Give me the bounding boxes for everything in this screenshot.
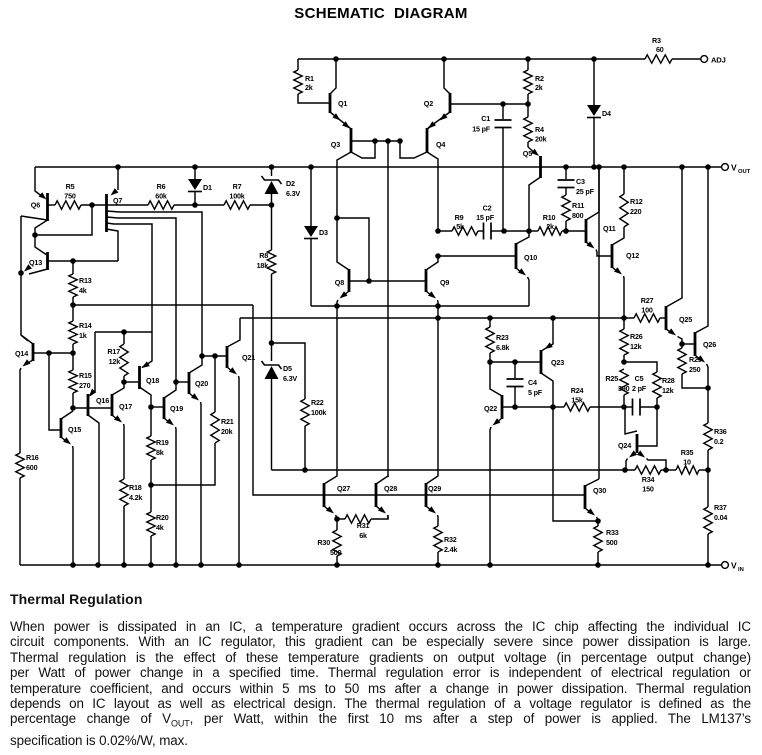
svg-text:R22: R22 [311,398,324,407]
node dot VOUT rail at D2 [269,164,275,170]
svg-text:5 pF: 5 pF [528,388,543,397]
wire bias column x253 down [253,305,324,495]
node dot C4 bottom [512,404,518,410]
transistor Q11 [586,167,616,256]
svg-text:Q26: Q26 [703,340,716,349]
svg-text:4k: 4k [156,523,164,532]
node dot R9 left node [435,228,441,234]
svg-text:Q6: Q6 [31,201,40,210]
svg-text:750: 750 [64,192,76,201]
wire R9 node [438,230,452,232]
svg-text:Q11: Q11 [603,224,616,233]
wire R6 to D1 [174,204,195,206]
node dot C1 bottom node [501,228,507,234]
transistor Q24 [618,407,666,470]
resistor R4 [524,104,547,147]
svg-text:600: 600 [26,463,38,472]
wire VOUT rail [35,166,722,168]
svg-text:R24: R24 [571,386,584,395]
node dot C1 top [500,101,506,107]
svg-text:150: 150 [642,485,654,494]
svg-text:Q21: Q21 [242,353,255,362]
node dot VOUT rail at D3 [308,164,314,170]
svg-text:Q18: Q18 [146,376,159,385]
resistor R6 [148,182,174,209]
node dot Q8/Q9 base tie [366,278,372,284]
node dot R14/R15/Q14 base [70,350,76,356]
node dot VIN rail x=490 [487,562,493,568]
resistor R35 [676,448,699,474]
wire D1 to R7 [195,204,224,206]
wire base rail y495 [324,494,585,496]
wire rail318 to R27 right part [660,317,666,319]
wire rail y470 [272,469,709,471]
capacitor C1 [472,104,511,231]
transistor Q25 [666,167,692,344]
node dot R28 bottom / C5 right [654,404,660,410]
svg-text:60k: 60k [155,192,167,201]
node dot rail470 at Q24 e2/R34/R35 [663,467,669,473]
svg-text:Q12: Q12 [626,251,639,260]
wire R31 right to Q28 emitter [371,515,388,519]
resistor R9 [452,213,478,235]
node dot VIN rail x=151 [148,562,154,568]
resistor R33 [594,521,619,565]
resistor R5 [55,182,81,209]
node dot rail470 at R22 bottom [302,467,308,473]
node dot R17 top [121,329,127,335]
node dot VOUT rail at Q26 collector [705,164,711,170]
svg-text:R2: R2 [535,74,544,83]
svg-text:R26: R26 [630,332,643,341]
wire bias node y332 [95,331,152,333]
resistor R24 [564,386,590,411]
wire branch to R22 [272,343,306,399]
svg-text:R32: R32 [444,535,457,544]
resistor R10 [538,213,562,235]
svg-text:15 pF: 15 pF [476,213,495,222]
wire Q8 base to Q9 base [369,280,426,282]
svg-text:500: 500 [330,548,342,557]
node dot VOUT rail at Q30 collector line [596,164,602,170]
svg-text:C5: C5 [635,374,644,383]
svg-text:R21: R21 [221,417,234,426]
node dot Q14 base tee [46,350,52,356]
svg-text:12k: 12k [630,342,642,351]
svg-text:Q10: Q10 [524,253,537,262]
node dot Q20 base node [173,379,179,385]
resistor R21 [211,356,234,443]
resistor R2 [524,59,544,104]
svg-text:800: 800 [572,211,584,220]
svg-text:D2: D2 [286,179,295,188]
svg-text:Q30: Q30 [593,486,606,495]
resistor R17 [107,332,128,382]
node dot D3/Q8 emitter [334,303,340,309]
svg-text:R18: R18 [129,483,142,492]
transistor Q10 [516,231,537,306]
node dot Q26 base node [679,341,685,347]
svg-text:R25: R25 [605,374,618,383]
transistor Q6 [21,167,92,255]
transistor Q22 [484,362,515,565]
svg-text:R17: R17 [107,347,120,356]
node dot VOUT rail at Q7 emitter [115,164,121,170]
svg-text:Q15: Q15 [68,425,81,434]
svg-text:IN: IN [738,567,744,573]
svg-text:D1: D1 [203,183,212,192]
wire R19 node to R21 bottom [151,443,215,485]
capacitor C3 [558,167,595,196]
node dot Q20 collector node [199,353,205,359]
wire rail y318 [240,317,634,319]
svg-text:12k: 12k [662,386,674,395]
svg-text:R29: R29 [689,355,702,364]
node dot R13 top [70,258,76,264]
transistor Q20 [176,356,208,565]
node dot VIN rail x=176 [173,562,179,568]
node dot Q18 base/R17/Q17 collector [121,379,127,385]
svg-text:R5: R5 [66,182,75,191]
wire Q6 base to R5 [48,204,56,206]
svg-text:OUT: OUT [738,169,751,175]
svg-text:10: 10 [683,458,691,467]
zener D5 [262,343,298,470]
node dot R23 bottom / Q22 collector [487,359,493,365]
svg-text:R30: R30 [317,538,330,547]
wire Q7 base to R6 [107,204,149,206]
node dot R15 bottom / Q16 base node [70,405,76,411]
resistor R28 [653,372,675,407]
node dot R13/R14 bias node [70,302,76,308]
svg-text:D4: D4 [602,109,611,118]
transistor Q17 [112,382,132,479]
svg-text:2k: 2k [305,83,313,92]
node dot Q23 collector / R24 [550,404,556,410]
wire R26 node to R28 top [624,362,657,372]
svg-text:Q16: Q16 [96,396,109,405]
transistor Q3 (dual-collector pnp) [331,121,400,218]
node dot R25 bottom / C5 left [621,404,627,410]
diode D3 [304,167,328,306]
svg-text:R31: R31 [357,521,370,530]
resistor R29 [678,344,708,388]
resistor R13 [69,261,92,305]
resistor R36 [704,388,727,470]
wire C2 to Q5 node [504,230,529,232]
node dot VIN rail x=201 [198,562,204,568]
wire Q13 emitter column [21,216,28,341]
capacitor C4 [507,362,543,407]
svg-text:R7: R7 [233,182,242,191]
svg-text:100k: 100k [229,192,244,201]
svg-text:6.8k: 6.8k [496,343,509,352]
node dot VIN rail x=337 [334,562,340,568]
terminal VIN [722,561,744,574]
wire R7 to D2 [250,204,272,206]
wire to R10 [529,230,538,232]
node dot VIN rail x=98 [95,562,101,568]
resistor R32 [434,526,458,565]
node dot Q4 collector-base tie [397,138,403,144]
capacitor C5 [624,374,657,416]
svg-text:15k: 15k [571,396,583,405]
svg-text:R33: R33 [606,528,619,537]
svg-text:R6: R6 [157,182,166,191]
svg-text:100k: 100k [311,408,326,417]
text block heading Thermal Regulation [10,591,751,748]
node dot rail470 at R36/R37 [705,467,711,473]
node dot VOUT rail at D1 [192,164,198,170]
resistor R20 [147,485,169,565]
svg-text:D5: D5 [283,364,292,373]
svg-text:Q3: Q3 [331,140,340,149]
node dot Q10 base tap [435,253,441,259]
terminal ADJ [701,56,726,65]
svg-text:4.2k: 4.2k [129,493,142,502]
resistor R26 [620,318,643,362]
node dot Q27 emitter / R30/R31 [334,516,340,522]
resistor R22 [301,398,327,470]
node dot rail318 at Q23 emitter [550,315,556,321]
transistor Q2 [424,59,503,128]
transistor Q23 [541,318,564,407]
svg-text:R34: R34 [642,475,655,484]
node dot top rail at Q1 collector [333,56,339,62]
transistor Q13 [24,252,73,274]
node dot VOUT rail at R12 [621,164,627,170]
svg-text:D3: D3 [319,228,328,237]
resistor R8 [257,205,276,343]
node dot R21 top tap [212,353,218,359]
node dot C4 top [512,359,518,365]
svg-text:R35: R35 [681,448,694,457]
wire Q3/Q4 base column down to Q28 [387,141,389,477]
transistor Q28 [376,476,397,519]
svg-text:270: 270 [79,381,91,390]
node dot VOUT rail at Q25 collector [679,164,685,170]
svg-text:R12: R12 [630,197,643,206]
resistor R7 [224,182,250,209]
wire R11 node to Q11 base [566,230,586,232]
wire Q20/Q21 base wire [202,355,227,357]
svg-text:R37: R37 [714,503,727,512]
svg-text:R16: R16 [26,453,39,462]
transistor Q4 (dual-collector pnp) [400,121,445,231]
transistor Q14 [15,335,49,452]
svg-text:R27: R27 [641,296,654,305]
svg-text:R3: R3 [652,36,661,45]
resistor R19 [147,407,169,485]
resistor R30 [317,519,341,565]
resistor R15 [69,353,92,408]
wire to R24 [553,406,564,408]
wire y407 C4 to Q23 collector [515,406,553,408]
svg-text:Q9: Q9 [440,278,449,287]
transistor Q16 [88,332,109,565]
svg-text:25 pF: 25 pF [576,187,595,196]
svg-text:ADJ: ADJ [711,56,726,65]
resistor R16 [16,452,39,565]
svg-text:2k: 2k [535,83,543,92]
node dot top rail at Q2 collector [441,56,447,62]
svg-text:R9: R9 [455,213,464,222]
svg-text:2k: 2k [546,222,554,231]
transistor Q30 [585,479,606,521]
svg-text:V: V [731,163,737,173]
transistor Q15 [61,411,81,565]
node dot VOUT rail at D4/Q11 [591,164,597,170]
svg-text:6k: 6k [359,531,367,540]
wire Q2 base to R2/R4 node [503,103,528,105]
svg-text:2.4k: 2.4k [444,545,457,554]
svg-text:R10: R10 [543,213,556,222]
svg-text:Q19: Q19 [170,404,183,413]
svg-text:R11: R11 [572,201,584,210]
wire base rail Q16/Q17 [73,407,112,409]
node dot VIN rail x=598 [595,562,601,568]
resistor R34 [635,466,661,494]
title [0,5,762,22]
svg-text:R1: R1 [305,74,314,83]
transistor Q21 [227,318,255,565]
svg-text:20k: 20k [535,135,547,144]
node dot D2 bottom / R8 top [269,202,275,208]
svg-text:Q7: Q7 [113,196,122,205]
transistor Q26 [695,167,716,388]
svg-text:R36: R36 [714,427,727,436]
resistor R18 [120,479,143,565]
svg-text:Q17: Q17 [119,402,132,411]
transistor Q8 [335,218,369,306]
svg-text:18k: 18k [257,261,269,270]
svg-text:Q23: Q23 [551,358,564,367]
svg-text:390: 390 [618,384,630,393]
svg-text:C2: C2 [483,204,492,213]
svg-text:6.3V: 6.3V [283,374,297,383]
wire x553 down to Q30 emitter wire [553,407,598,521]
resistor R27 [634,296,660,322]
svg-text:Q29: Q29 [428,484,441,493]
wire R10 to R11 node [562,230,566,232]
transistor Q7 (quad-collector pnp) [107,167,203,382]
node dot top rail at D4 [591,56,597,62]
svg-text:2 pF: 2 pF [632,384,647,393]
wire Q9 emitter node down to rail318 [437,306,439,318]
transistor Q27 [324,306,350,519]
node dot R2/R4/base [525,101,531,107]
node dot Q8 collector-base tie [334,215,340,221]
node dot R19/R20/R21 wire [148,482,154,488]
terminal VOUT [722,163,751,176]
transistor Q1 [330,59,350,128]
wire emitter rail y306 [311,305,529,307]
node dot VIN rail x=438 [435,562,441,568]
svg-text:500: 500 [606,538,618,547]
resistor R37 [704,470,728,565]
transistor Q29 [426,318,441,526]
svg-text:R20: R20 [156,513,169,522]
svg-text:Q1: Q1 [338,99,347,108]
svg-text:1k: 1k [79,331,87,340]
svg-text:15 pF: 15 pF [472,125,491,134]
resistor R12 [620,167,643,227]
transistor Q5 [523,147,541,231]
wire Q14 base tee to R14 node [49,352,73,354]
svg-text:Q20: Q20 [195,379,208,388]
node dot Q3 collector-base tie [372,138,378,144]
wire Q8 tie loop [337,218,369,281]
node dot VIN rail x=239 [236,562,242,568]
node dot rail470 at Q24 e1/R34 [622,467,628,473]
svg-text:6.3V: 6.3V [286,189,300,198]
svg-text:Q25: Q25 [679,315,692,324]
svg-text:Q4: Q4 [436,140,445,149]
svg-text:Q2: Q2 [424,99,433,108]
svg-text:250: 250 [689,365,701,374]
transistor Q19 [151,382,183,565]
node dot Q9 emitter [435,303,441,309]
svg-text:0.04: 0.04 [714,513,727,522]
wire VIN rail [20,564,722,566]
svg-text:0.2: 0.2 [714,437,724,446]
svg-text:20k: 20k [221,427,233,436]
resistor R3 [645,36,672,63]
node dot Q19 base node [148,404,154,410]
svg-text:C4: C4 [528,378,537,387]
svg-text:Q28: Q28 [384,484,397,493]
svg-text:5k: 5k [456,222,464,231]
resistor R23 [486,318,510,362]
node dot Q3/Q4 base center [385,138,391,144]
svg-text:Q8: Q8 [335,278,344,287]
capacitor C2 [476,204,504,240]
wire VOUT column x599 down to Q30 [598,167,600,479]
node dot Q30 emitter / R33 [595,518,601,524]
svg-text:R13: R13 [79,276,92,285]
svg-text:R28: R28 [662,376,675,385]
node dot base node Q6/Q7 [89,202,95,208]
zener D2 [262,167,301,205]
svg-text:12k: 12k [109,357,121,366]
svg-text:100: 100 [641,306,653,315]
svg-text:C3: C3 [576,177,585,186]
diode D1 [188,167,212,205]
svg-text:R14: R14 [79,321,92,330]
wire bias line to Q27-Q30 bases [73,304,253,306]
node dot Q6 collector tie [32,232,38,238]
transistor Q18 [124,332,159,407]
wire R24 to R25 node [590,406,624,408]
node dot R11 bottom node [563,228,569,234]
node dot Q5 collector node [526,228,532,234]
transistor Q12 [612,227,639,318]
svg-text:R4: R4 [535,125,544,134]
node dot R26/R25 node [621,359,627,365]
svg-text:R19: R19 [156,438,169,447]
node dot VIN rail x=708 [705,562,711,568]
svg-text:Q14: Q14 [15,349,28,358]
wire Q26 base [682,343,695,345]
node dot VOUT rail at C3 [563,164,569,170]
svg-text:V: V [731,561,737,571]
wire Q10 base [438,255,516,257]
node dot VIN rail x=124 [121,562,127,568]
node dot rail318 at R23 [487,315,493,321]
svg-text:R8: R8 [259,251,268,260]
wire Q13 base right / fan D join [73,260,118,262]
svg-text:R15: R15 [79,371,92,380]
